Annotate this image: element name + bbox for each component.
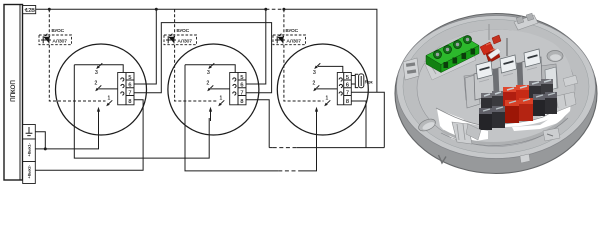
svg-text:3: 3 <box>313 70 316 76</box>
svg-text:АЛ307: АЛ307 <box>287 39 302 45</box>
svg-text:2: 2 <box>313 81 316 87</box>
svg-text:8: 8 <box>346 99 349 105</box>
svg-text:5: 5 <box>240 75 243 81</box>
svg-text:ВУОС: ВУОС <box>177 28 190 33</box>
svg-text:ППКОП: ППКОП <box>10 80 17 102</box>
svg-text:6: 6 <box>346 83 349 89</box>
svg-text:2: 2 <box>207 81 210 87</box>
svg-text:5: 5 <box>128 75 131 81</box>
svg-text:5: 5 <box>346 75 349 81</box>
svg-text:7: 7 <box>128 90 131 96</box>
svg-text:Rок: Rок <box>365 80 374 85</box>
svg-text:+Вых1-: +Вых1- <box>27 142 32 156</box>
svg-text:1: 1 <box>108 95 111 101</box>
svg-text:2: 2 <box>95 81 98 87</box>
svg-text:АЛ307: АЛ307 <box>53 39 68 45</box>
svg-text:8: 8 <box>240 99 243 105</box>
svg-text:+Вых2-: +Вых2- <box>27 164 32 178</box>
svg-text:6: 6 <box>128 83 131 89</box>
svg-text:8: 8 <box>128 99 131 105</box>
svg-text:3: 3 <box>95 70 98 76</box>
svg-text:ВУОС: ВУОС <box>286 28 299 33</box>
svg-text:+: + <box>24 8 27 13</box>
svg-text:6: 6 <box>240 83 243 89</box>
svg-text:ВУОС: ВУОС <box>52 28 65 33</box>
svg-text:1: 1 <box>326 95 329 101</box>
svg-text:3: 3 <box>207 70 210 76</box>
svg-text:АЛ307: АЛ307 <box>178 39 193 45</box>
svg-text:1: 1 <box>220 95 223 101</box>
svg-text:7: 7 <box>240 90 243 96</box>
svg-text:7: 7 <box>346 90 349 96</box>
